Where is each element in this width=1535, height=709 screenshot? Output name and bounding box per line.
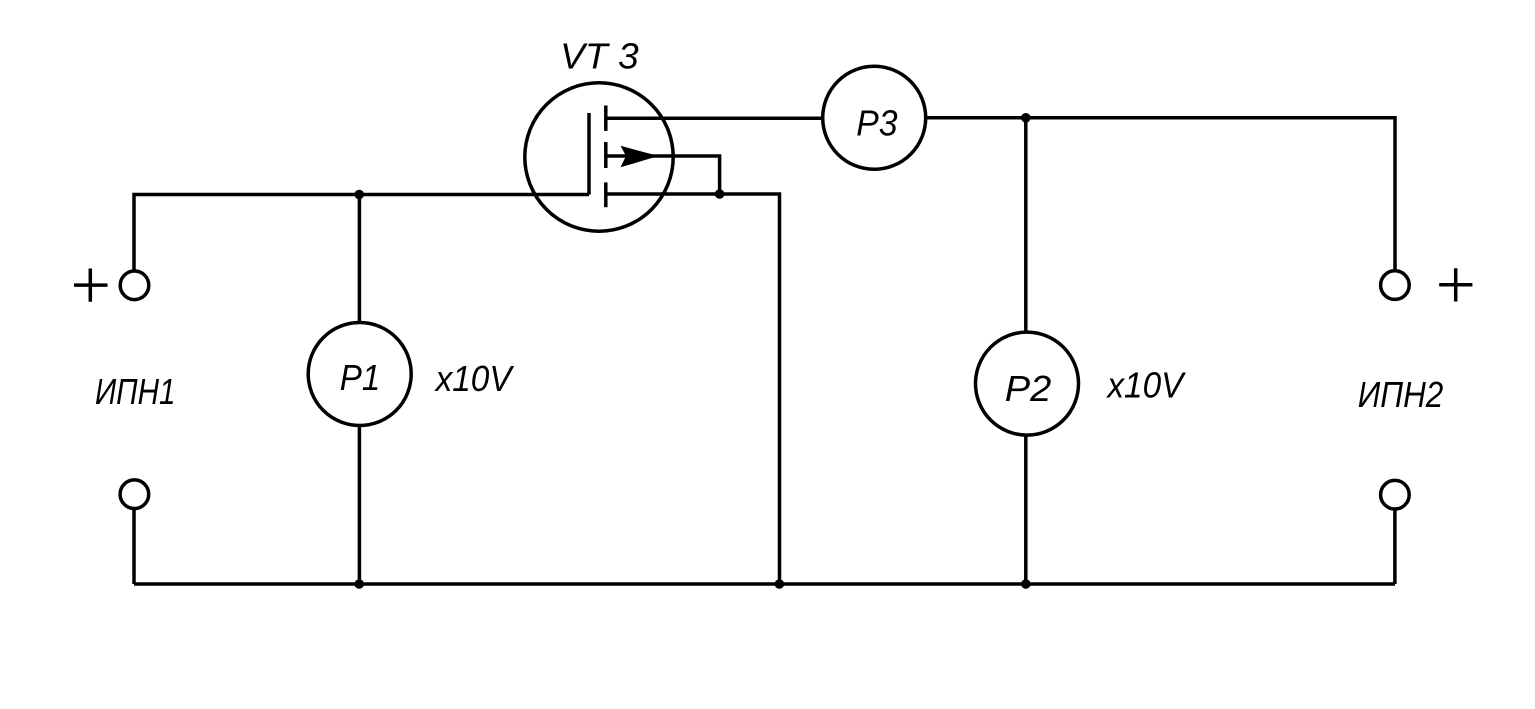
plus sign left bbox=[74, 269, 108, 302]
wire: substrate lead right and down to source wire bbox=[606, 156, 720, 194]
transistor VT3 channel dash middle bbox=[604, 142, 608, 168]
plus sign right bbox=[1439, 268, 1472, 301]
svg-text:VT 3: VT 3 bbox=[560, 36, 639, 77]
wire: ИПН2 minus terminal down to bottom rail bbox=[1393, 509, 1397, 584]
svg-text:ИПН2: ИПН2 bbox=[1358, 374, 1444, 415]
transistor VT3 body circle bbox=[525, 83, 673, 231]
svg-text:ИПН1: ИПН1 bbox=[95, 371, 176, 412]
junction dot at P1 top bbox=[354, 190, 364, 200]
wire: P2 bottom vertical bbox=[1024, 435, 1028, 584]
transistor VT3 substrate arrow bbox=[621, 146, 659, 168]
svg-text:x10V: x10V bbox=[1106, 365, 1187, 406]
transistor VT3 channel dash bottom bbox=[604, 182, 608, 207]
wire: ИПН1 plus terminal up and across to gate bbox=[134, 195, 589, 272]
wire: P3 to top-right corner down to ИПН2 plus terminal bbox=[926, 118, 1395, 271]
junction dot substrate-source bbox=[715, 189, 725, 199]
meter P2 circle bbox=[976, 332, 1079, 435]
terminal ИПН1 minus bbox=[120, 480, 149, 509]
wire: ИПН1 minus terminal down to bottom rail bbox=[132, 508, 136, 584]
terminal ИПН2 minus bbox=[1381, 480, 1410, 509]
junction dot P1 bottom bbox=[354, 579, 364, 589]
junction dot source bottom bbox=[775, 579, 785, 589]
transistor VT3 gate bar bbox=[587, 113, 591, 195]
wire: drain to P3 bbox=[606, 116, 823, 120]
meter P3 circle bbox=[823, 66, 926, 169]
wire: source lead right and down to bottom rail bbox=[606, 194, 780, 584]
wire: P1 bottom vertical bbox=[358, 426, 362, 584]
meter P1 circle bbox=[308, 323, 411, 426]
wire: P2 top vertical bbox=[1024, 118, 1028, 333]
junction dot P2 bottom bbox=[1021, 579, 1031, 589]
junction dot P2 top bbox=[1021, 113, 1031, 123]
terminal ИПН1 plus bbox=[120, 271, 149, 300]
transistor VT3 channel dash top bbox=[604, 106, 608, 131]
terminal ИПН2 plus bbox=[1381, 271, 1410, 300]
svg-text:P3: P3 bbox=[856, 103, 897, 144]
svg-text:x10V: x10V bbox=[434, 358, 515, 399]
wire: P1 top vertical bbox=[358, 195, 362, 324]
wire: bottom rail bbox=[134, 582, 1395, 586]
svg-text:P1: P1 bbox=[340, 357, 381, 398]
svg-text:P2: P2 bbox=[1005, 368, 1052, 409]
